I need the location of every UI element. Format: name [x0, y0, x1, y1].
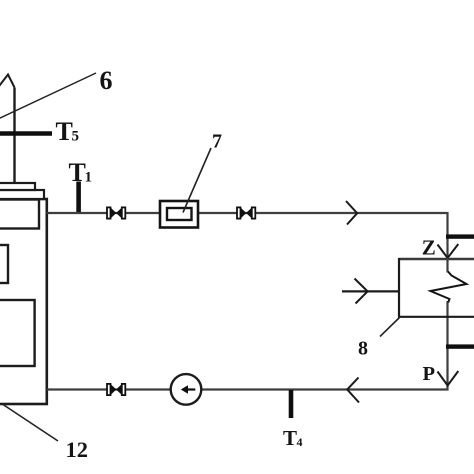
svg-text:P: P — [423, 363, 436, 385]
bottom return pipe — [47, 388, 449, 390]
flow arrow left on bottom pipe — [347, 378, 359, 403]
down arrow at P — [438, 371, 459, 386]
flow meter 7 outer case — [160, 201, 198, 228]
pump body — [171, 374, 202, 405]
heat exchanger 8 shell left — [398, 258, 400, 318]
boiler inner window top — [0, 200, 39, 229]
pump arrow tail — [187, 388, 195, 390]
sensor stub T3 (cut) — [446, 344, 474, 348]
valve V1 — [107, 207, 125, 218]
sensor T5 stem — [0, 131, 52, 136]
cold water inlet stub — [342, 290, 399, 292]
top supply pipe — [47, 212, 448, 214]
heating coil zigzag — [431, 272, 467, 303]
valve V3 — [107, 384, 125, 395]
boiler lid upper layer — [0, 183, 35, 190]
svg-text:6: 6 — [100, 66, 113, 95]
boiler inner window bottom — [0, 300, 35, 366]
leader line to 8 — [380, 318, 400, 337]
flow meter 7 display — [167, 208, 192, 220]
sensor T4 stem — [289, 390, 294, 418]
boiler inner window middle — [0, 245, 8, 283]
inlet arrow — [355, 279, 368, 304]
chimney pipe 6 — [13, 88, 15, 184]
svg-text:1: 1 — [85, 170, 93, 186]
heat exchanger 8 shell bottom — [398, 316, 474, 318]
svg-text:T: T — [56, 117, 73, 146]
right riser pipe lower — [446, 301, 448, 391]
sensor T1 stem — [76, 182, 81, 214]
svg-text:T: T — [69, 158, 86, 187]
boiler body 12 — [0, 199, 47, 404]
svg-text:Z: Z — [422, 236, 436, 260]
leader line to 12 — [3, 405, 58, 442]
chimney roof — [0, 75, 15, 91]
sensor stub T2 (cut) — [446, 234, 474, 238]
right riser pipe upper — [446, 212, 448, 273]
boiler lid lower layer — [0, 190, 44, 199]
svg-text:12: 12 — [66, 437, 89, 462]
svg-text:5: 5 — [72, 129, 80, 145]
flow arrow right on top pipe — [346, 201, 357, 225]
svg-text:7: 7 — [212, 131, 222, 153]
svg-text:T: T — [283, 426, 297, 450]
heat exchanger 8 shell top — [399, 258, 474, 261]
svg-text:4: 4 — [297, 435, 303, 449]
valve V2 — [237, 207, 255, 218]
svg-text:8: 8 — [358, 338, 368, 360]
down arrow at Z — [438, 244, 459, 258]
pump arrow head — [181, 385, 188, 394]
leader line to 7 — [183, 148, 211, 213]
leader line to 6 — [0, 73, 96, 119]
